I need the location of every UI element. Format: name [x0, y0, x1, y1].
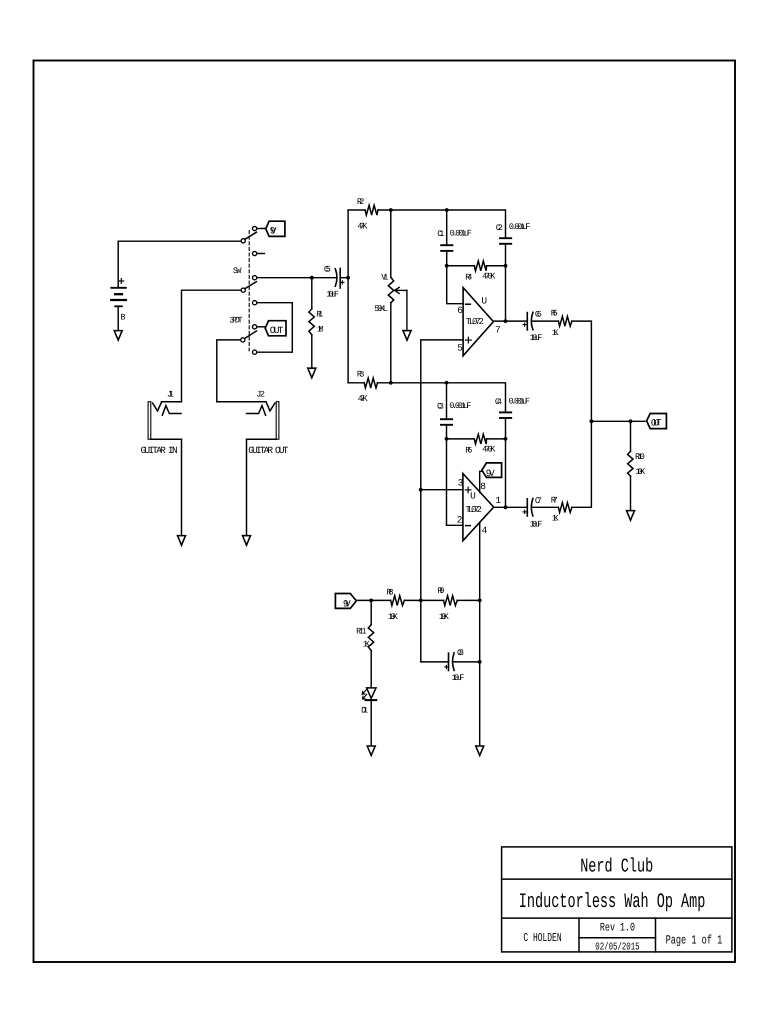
- svg-text:10K: 10K: [635, 467, 646, 477]
- svg-text:B: B: [120, 313, 125, 323]
- supply flag 9V (bias, points right): [335, 594, 356, 609]
- svg-text:2: 2: [457, 515, 463, 526]
- svg-text:C4: C4: [495, 397, 502, 407]
- svg-text:OUT: OUT: [651, 417, 662, 428]
- svg-text:4: 4: [482, 525, 488, 536]
- junction (R4 left): [445, 264, 449, 268]
- resistor R2 (47K): [365, 205, 378, 215]
- wire R6 right lead: [487, 438, 506, 440]
- svg-text:1M: 1M: [317, 325, 324, 335]
- capacitor C2 (0.001uF): [500, 238, 511, 244]
- svg-text:9V: 9V: [270, 225, 277, 236]
- svg-text:U: U: [481, 295, 487, 306]
- svg-text:47K: 47K: [357, 221, 368, 231]
- junction (output bus tee): [590, 419, 594, 423]
- svg-text:GUITAR IN: GUITAR IN: [141, 445, 178, 456]
- resistor R3 (47K): [364, 378, 377, 388]
- ground (D1): [367, 746, 375, 755]
- resistor R8 (10K): [391, 596, 405, 606]
- switch arm pole 2: [245, 282, 257, 289]
- svg-text:C3: C3: [437, 402, 444, 412]
- junction node A (R1/C5 net): [310, 276, 314, 280]
- jack J2 tip contact: [217, 402, 275, 411]
- resistor R9 (10K): [444, 596, 458, 606]
- signal flag OUT (right): [647, 414, 667, 429]
- jack J2 switch contact: [247, 406, 266, 416]
- svg-text:C6: C6: [535, 309, 542, 319]
- junction (U1A output): [504, 319, 508, 323]
- junction node (C5 to feedback column): [346, 276, 350, 280]
- svg-text:10uF: 10uF: [452, 673, 465, 683]
- wire C7 to R7: [532, 506, 559, 508]
- svg-text:R7: R7: [551, 495, 558, 505]
- svg-text:1: 1: [495, 495, 501, 506]
- svg-text:02/05/2015: 02/05/2015: [595, 942, 639, 954]
- svg-text:R4: R4: [465, 272, 472, 282]
- wire U1A output to C6: [493, 320, 527, 322]
- junction (R4 right): [504, 264, 508, 268]
- wire R4 left lead: [447, 265, 475, 267]
- wire R1 top lead: [311, 278, 313, 309]
- jack J1 tip contact: [153, 402, 182, 411]
- svg-text:R11: R11: [356, 626, 367, 636]
- junction (U1B pin3 bias): [419, 488, 423, 492]
- svg-text:1K: 1K: [552, 514, 560, 524]
- switch throw 1a: [253, 226, 257, 230]
- switch arm pole 3: [245, 331, 257, 338]
- junction (R6 right): [504, 437, 508, 441]
- wire R10 bottom lead to ground: [630, 476, 632, 510]
- wire C1 bottom / R4 left / U1A pin6: [447, 251, 463, 304]
- resistor R1 (1M): [309, 309, 314, 335]
- svg-text:C5: C5: [324, 265, 331, 275]
- wire U1A pin5 / U1B pin3 bias column to C8: [421, 340, 463, 662]
- wire C6 to R5: [532, 320, 559, 322]
- resistor R10 (10K): [628, 451, 633, 476]
- wire R1 bottom lead to ground: [311, 335, 313, 368]
- svg-text:3: 3: [458, 478, 464, 489]
- wire SW throw2a to C5 (node with R1): [257, 277, 336, 279]
- wire bottom net: node to R3: [348, 382, 364, 384]
- potentiometer V1 (50KL) body: [388, 277, 393, 303]
- svg-text:0.001uF: 0.001uF: [509, 222, 531, 232]
- battery B: [111, 279, 126, 331]
- junction (R6 left): [445, 437, 449, 441]
- wire SW pole3 common to J2 tip: [217, 340, 241, 402]
- ground (R10): [627, 511, 635, 521]
- wire C3 bottom / R6 left / U1B pin2: [447, 425, 463, 526]
- svg-text:47K: 47K: [358, 394, 369, 404]
- ground (battery): [114, 331, 122, 341]
- svg-text:R10: R10: [635, 452, 645, 462]
- wire top net: node to R2: [348, 209, 365, 211]
- wire R10 top lead: [630, 421, 632, 451]
- svg-text:C2: C2: [496, 223, 503, 233]
- svg-text:8: 8: [480, 481, 486, 492]
- switch throw 2b: [253, 301, 257, 305]
- wire C5 to node line: [340, 277, 348, 279]
- wire R4 right lead: [487, 265, 506, 267]
- wire C8 right lead: [454, 661, 480, 663]
- capacitor C5 (10uF): [335, 269, 344, 289]
- wire SW pole2 common to J1 tip: [182, 290, 241, 402]
- svg-text:6: 6: [457, 305, 463, 316]
- title block outline: [502, 847, 732, 952]
- switch gang dashed link: [248, 231, 250, 351]
- svg-text:R9: R9: [438, 586, 445, 596]
- supply flag 9V (U1B pin8): [482, 463, 502, 478]
- svg-text:TL072: TL072: [466, 317, 484, 327]
- wire V1 bottom lead: [390, 303, 392, 383]
- svg-text:R3: R3: [357, 370, 364, 380]
- ground (J1): [178, 536, 186, 546]
- svg-text:R8: R8: [387, 588, 394, 598]
- capacitor C4 (0.001uF): [500, 412, 511, 418]
- op-amp U1B TL072: [463, 474, 494, 541]
- jack J2 body: [276, 402, 279, 440]
- wire R11 to D1: [370, 651, 372, 688]
- svg-text:GUITAR OUT: GUITAR OUT: [248, 445, 288, 456]
- wire C3 top stub: [446, 383, 448, 419]
- capacitor C6 (10uF): [523, 312, 533, 330]
- svg-text:R1: R1: [316, 310, 323, 320]
- svg-text:D1: D1: [361, 705, 368, 715]
- supply flag 9V (top at switch): [266, 221, 285, 236]
- svg-text:9V: 9V: [343, 598, 351, 609]
- capacitor C1 (0.001uF): [441, 245, 452, 251]
- svg-text:Nerd Club: Nerd Club: [580, 856, 653, 878]
- wire U1B output to C7: [494, 506, 528, 508]
- wire R11 top lead: [370, 600, 372, 624]
- junction (C3 top): [445, 381, 449, 385]
- junction (R10 top): [629, 419, 633, 423]
- wire SW throw2b loop to throw3b: [257, 303, 293, 353]
- resistor R5 (1K): [558, 316, 572, 326]
- svg-text:470K: 470K: [482, 272, 496, 282]
- wire R9 right lead: [457, 599, 480, 601]
- potentiometer V1 wiper arrow: [395, 287, 407, 330]
- jack J1 sleeve: [151, 439, 182, 535]
- resistor R11 (1K): [368, 625, 373, 651]
- wire bottom net: R3 to C4 corner: [378, 383, 506, 413]
- junction (R8/R9): [419, 599, 423, 603]
- svg-text:Inductorless Wah Op Amp: Inductorless Wah Op Amp: [519, 891, 706, 914]
- svg-text:10K: 10K: [388, 612, 399, 622]
- switch SW 3PDT pole 1 common: [241, 239, 245, 243]
- junction (U1B output): [504, 505, 508, 509]
- svg-text:10uF: 10uF: [530, 519, 543, 529]
- junction (R9/pin4): [478, 599, 482, 603]
- svg-text:10uF: 10uF: [326, 290, 339, 300]
- ground (V1 wiper): [403, 330, 411, 332]
- wire top net: R2 to C2 corner: [378, 210, 506, 238]
- switch throw 2a: [253, 276, 257, 280]
- wire C2 bottom / R4 right to U1A output junction: [505, 244, 507, 321]
- svg-text:0.001uF: 0.001uF: [509, 397, 531, 407]
- switch pole 2 common: [241, 288, 245, 292]
- svg-text:50KL: 50KL: [374, 304, 387, 314]
- wire SW throw1a to 9V flag: [257, 228, 266, 230]
- jack J1 body: [148, 402, 151, 440]
- wire U1B pin3 stub: [421, 489, 463, 491]
- wire R7 to right bus: [572, 421, 592, 507]
- junction (V1 top): [389, 208, 393, 212]
- signal flag OUT (at switch): [265, 321, 286, 336]
- svg-text:3PDT: 3PDT: [229, 316, 242, 326]
- svg-text:R2: R2: [357, 197, 364, 207]
- svg-text:R5: R5: [551, 309, 558, 319]
- svg-text:C8: C8: [457, 648, 464, 658]
- resistor R4 (470K): [474, 261, 486, 271]
- junction (C8 right): [478, 660, 482, 664]
- op-amp U1A plus sign: [466, 337, 472, 343]
- wire U1B pin4 down through R9/C8 to ground: [479, 523, 481, 746]
- wire SW throw1b stub: [257, 253, 265, 255]
- svg-text:470K: 470K: [482, 445, 496, 455]
- svg-text:U: U: [470, 490, 476, 501]
- svg-text:1K: 1K: [552, 328, 560, 338]
- svg-text:1K: 1K: [363, 639, 371, 649]
- switch pole 3 common: [241, 338, 245, 342]
- svg-text:10uF: 10uF: [530, 333, 543, 343]
- svg-text:0.001uF: 0.001uF: [450, 229, 472, 239]
- wire R5 to right bus: [572, 321, 592, 421]
- switch arm pole 1: [245, 232, 257, 239]
- op-amp U1B plus sign: [465, 487, 471, 493]
- wire R8 to R9: [404, 599, 443, 601]
- capacitor C7 (10uF): [523, 499, 533, 517]
- LED D1: [362, 688, 376, 700]
- svg-text:R6: R6: [465, 445, 472, 455]
- switch throw 3a: [253, 325, 257, 329]
- wire C1 top stub: [446, 210, 448, 245]
- jack J2 sleeve: [247, 439, 277, 535]
- jack J1 switch contact: [162, 406, 181, 416]
- wire D1 to ground: [370, 700, 372, 746]
- junction (C1 top): [445, 208, 449, 212]
- svg-text:5: 5: [457, 342, 463, 353]
- capacitor C3 (0.001uF): [441, 419, 452, 425]
- wire SW throw3a to OUT flag: [257, 326, 265, 328]
- ground (J2): [243, 536, 251, 546]
- wire right bus to OUT flag: [591, 420, 645, 422]
- svg-text:J1: J1: [167, 389, 174, 399]
- wire battery+ to SW pole1 common: [118, 241, 241, 287]
- wire C4 bottom / R6 right to U1B output junction: [505, 418, 507, 507]
- junction (V1 bottom): [389, 381, 393, 385]
- ground (R1): [308, 368, 316, 378]
- svg-text:7: 7: [495, 324, 501, 335]
- wire node line (C5/R2/R3): [347, 210, 349, 383]
- junction (R11 top): [369, 599, 373, 603]
- svg-text:Page 1 of 1: Page 1 of 1: [666, 934, 723, 948]
- svg-text:9V: 9V: [486, 468, 495, 479]
- wire R6 left lead: [447, 438, 475, 440]
- resistor R7 (1K): [558, 503, 572, 513]
- wire U1B pin8 to 9V flag: [480, 471, 482, 492]
- wire 9V flag to R8 (bias row): [356, 599, 390, 601]
- svg-text:SW: SW: [233, 266, 242, 276]
- switch throw 1b: [253, 251, 257, 255]
- op-amp U1B minus sign: [466, 525, 471, 527]
- svg-text:V1: V1: [381, 272, 388, 282]
- svg-text:0.001uF: 0.001uF: [449, 401, 471, 411]
- svg-text:OUT: OUT: [270, 325, 284, 336]
- svg-text:TL072: TL072: [465, 505, 482, 515]
- svg-text:J2: J2: [256, 389, 265, 399]
- capacitor C8 (10uF): [445, 653, 454, 671]
- wire V1 top lead: [390, 210, 392, 277]
- svg-text:10K: 10K: [439, 612, 450, 622]
- svg-text:C HOLDEN: C HOLDEN: [523, 931, 561, 945]
- svg-text:Rev 1.0: Rev 1.0: [600, 921, 635, 934]
- op-amp U1A TL072: [463, 288, 493, 356]
- switch throw 3b: [253, 350, 257, 354]
- ground (U1B pin4): [476, 746, 484, 755]
- resistor R6 (470K): [474, 434, 486, 444]
- op-amp U1A minus sign: [466, 303, 471, 305]
- svg-text:C7: C7: [535, 496, 542, 506]
- svg-text:C1: C1: [437, 229, 444, 239]
